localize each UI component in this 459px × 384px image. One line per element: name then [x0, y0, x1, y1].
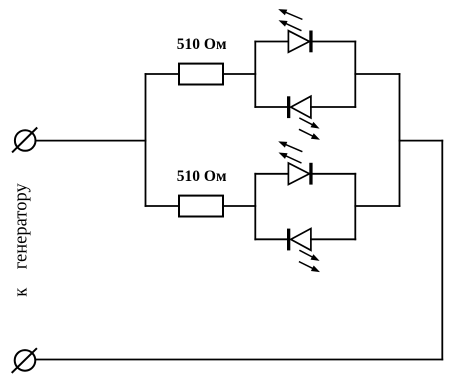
VD4 emission arrow 2: [300, 262, 320, 272]
svg-text:510 Ом: 510 Ом: [177, 36, 227, 53]
terminal X2 (bottom input): [12, 349, 36, 372]
LED VD3 (points right): [288, 163, 312, 185]
VD2 emission arrow 2: [300, 130, 320, 140]
wire: loop2 top left segment: [255, 173, 288, 175]
wire: loop1 right vertical: [354, 42, 356, 108]
wire: bottom return to X2: [36, 359, 443, 361]
wire: loop1 top left segment: [255, 41, 288, 43]
wire: loop1 bottom left segment: [255, 106, 287, 108]
node A: input split vertical: [145, 74, 147, 206]
svg-text:кгенератору: кгенератору: [12, 183, 32, 297]
wire: R2 to loop2: [223, 205, 255, 207]
wire: loop2 bottom right segment: [311, 238, 355, 240]
wire: loop2 bottom left segment: [255, 238, 287, 240]
terminal X1 (top input): [13, 128, 37, 152]
VD2 emission arrow 1: [300, 118, 320, 128]
svg-text:510 Ом: 510 Ом: [177, 168, 227, 185]
VD1 emission arrow 1: [278, 9, 302, 19]
LED VD2 (points left): [287, 96, 311, 118]
wire: loop1 output to node B: [355, 73, 399, 75]
wire: node A to R2: [146, 205, 180, 207]
LED VD1 (points right): [288, 31, 312, 53]
wire: loop2 top right segment: [313, 173, 356, 175]
resistor R1: [179, 64, 223, 85]
LED VD4 (points left): [287, 229, 311, 251]
wire: node A to R1: [146, 73, 180, 75]
wire: loop1 left vertical: [254, 42, 256, 108]
wire: R1 to loop1: [223, 73, 255, 75]
wire: loop2 left vertical: [254, 174, 256, 240]
wire: right rail vertical: [441, 141, 443, 360]
wire: loop2 output to node B: [355, 205, 399, 207]
VD3 emission arrow 1: [278, 141, 302, 151]
wire: node B to right rail: [400, 140, 443, 142]
wire: loop1 bottom right segment: [311, 106, 355, 108]
node B: output join vertical: [399, 74, 401, 206]
resistor R2: [179, 196, 223, 217]
wire: loop2 right vertical: [354, 174, 356, 240]
VD3 emission arrow 2: [279, 153, 301, 163]
wire: loop1 top right segment: [313, 41, 356, 43]
VD1 emission arrow 2: [279, 20, 301, 30]
VD4 emission arrow 1: [300, 251, 320, 261]
wire: X1 to node A: [36, 140, 146, 142]
